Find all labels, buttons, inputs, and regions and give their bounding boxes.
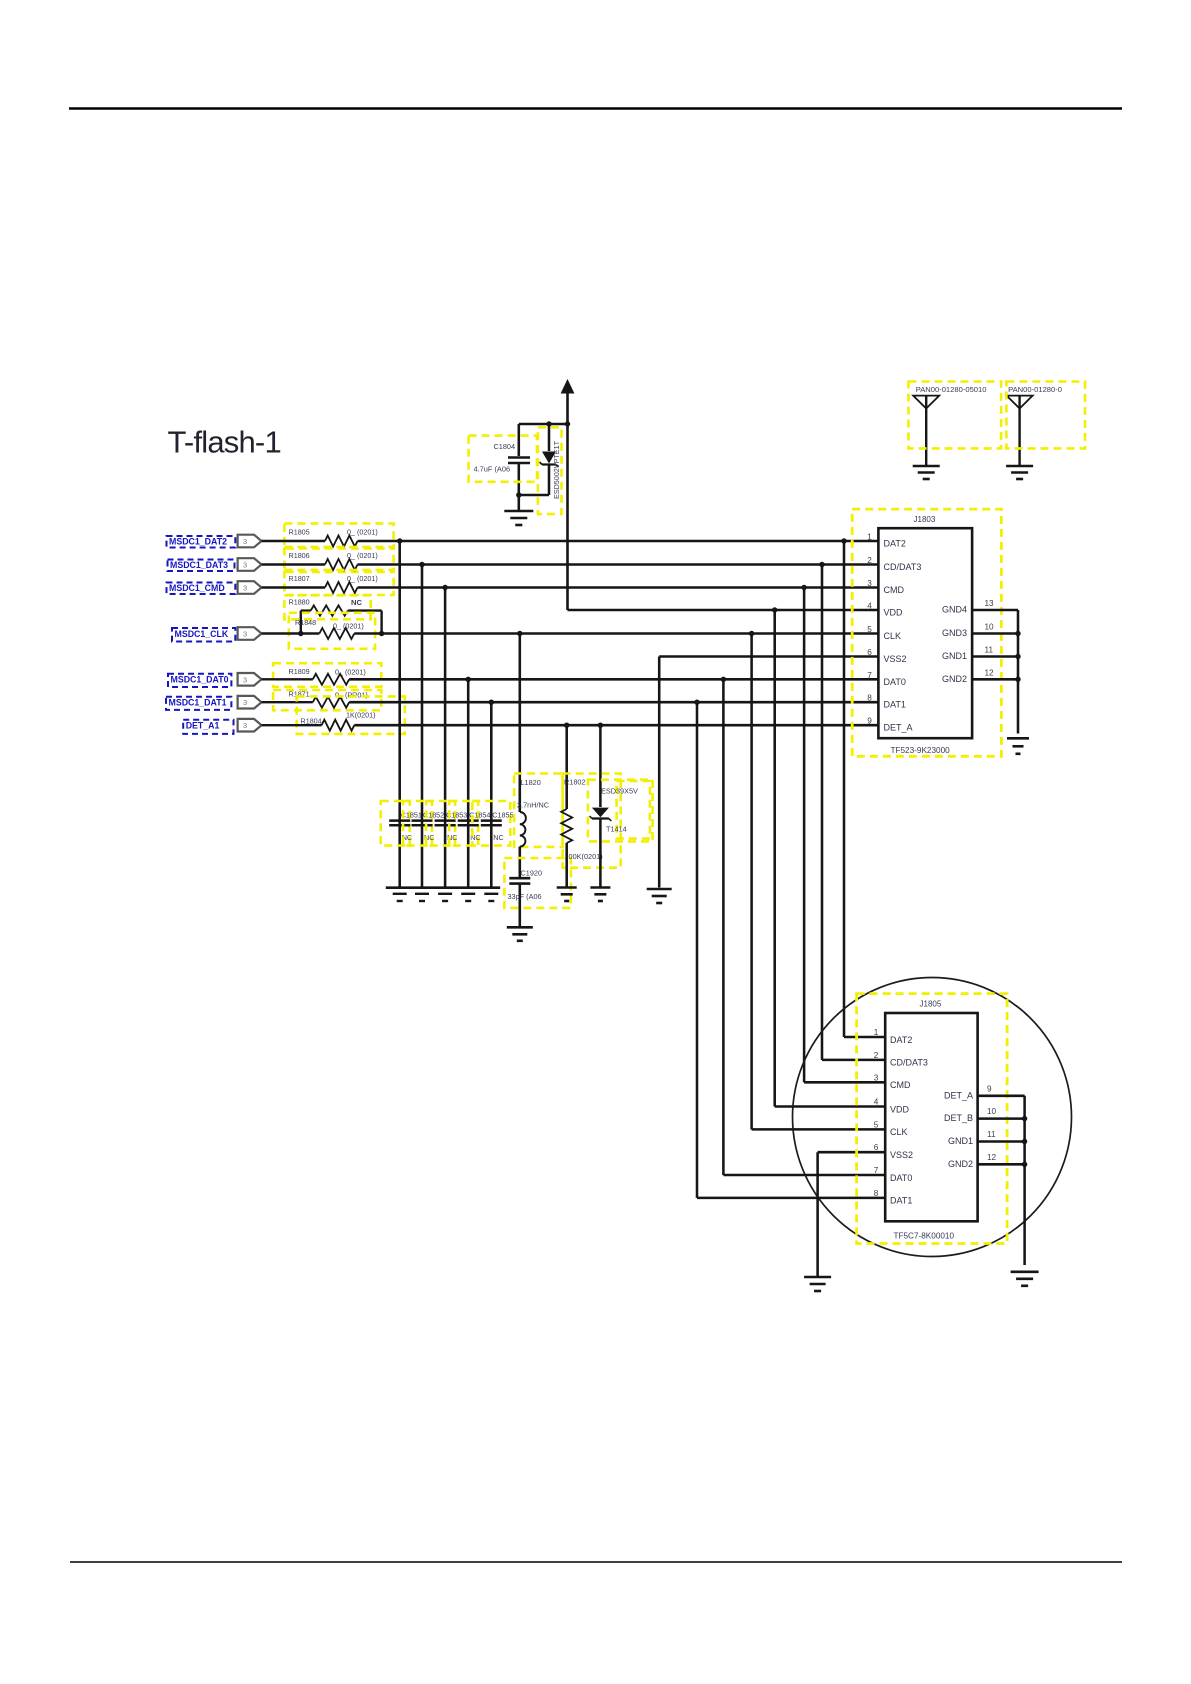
svg-text:6: 6 <box>867 648 872 657</box>
magnifier circle around J1805 <box>793 978 1072 1257</box>
wire MSDC1_CLK row <box>262 632 320 635</box>
wire DET_A vertical to R1802 <box>565 725 568 809</box>
svg-text:DAT1: DAT1 <box>884 700 906 710</box>
ground T1414 <box>590 886 610 889</box>
svg-text:7: 7 <box>874 1166 879 1175</box>
svg-text:T1414: T1414 <box>606 825 627 834</box>
wire VDD riser to J1805 pin4 <box>773 610 776 1107</box>
ground J1805 VSS2 <box>804 1276 831 1279</box>
wire MSDC1_DAT0 row <box>262 678 313 680</box>
wire J1805 right bus to ground <box>1023 1096 1026 1265</box>
svg-text:0_ (0201): 0_ (0201) <box>347 551 378 560</box>
svg-text:MSDC1_DAT0: MSDC1_DAT0 <box>171 675 229 685</box>
ESD diode D1800 <box>540 424 559 495</box>
svg-text:TF523-9K23000: TF523-9K23000 <box>891 746 951 755</box>
wire J1803 GND bus <box>1017 610 1020 734</box>
resistor R1880 NC (parallel bypass) <box>284 595 381 633</box>
wire C1920 to ground <box>519 885 522 927</box>
svg-text:11: 11 <box>985 646 994 655</box>
wire diode to ground <box>599 819 602 888</box>
svg-text:CLK: CLK <box>890 1127 908 1137</box>
ground <box>913 465 940 468</box>
svg-text:MSDC1_CLK: MSDC1_CLK <box>175 629 229 639</box>
svg-text:9: 9 <box>987 1084 992 1093</box>
ground J1803 <box>1007 737 1029 740</box>
svg-text:10: 10 <box>987 1107 997 1116</box>
yellow box PAN00-01280-0 <box>1006 382 1085 449</box>
port connector MSDC1_DAT3 <box>238 558 262 571</box>
ground C1920 <box>507 926 533 929</box>
fiducial antenna symbol PAN00-01280-0 <box>1007 385 1062 466</box>
svg-text:TF5C7-8K00010: TF5C7-8K00010 <box>894 1232 955 1241</box>
svg-text:R1848: R1848 <box>295 618 316 627</box>
svg-text:GND4: GND4 <box>942 605 967 615</box>
svg-text:L1820: L1820 <box>521 778 541 787</box>
svg-text:GND2: GND2 <box>942 674 967 684</box>
capacitor C1854 NC <box>449 801 490 846</box>
svg-text:NC: NC <box>493 833 503 842</box>
wire DET_A1 row <box>262 724 322 726</box>
svg-text:PAN00-01280-05010: PAN00-01280-05010 <box>916 385 987 394</box>
resistor R1802 100K(0201) <box>561 774 620 868</box>
svg-text:J1803: J1803 <box>914 515 936 524</box>
wire DAT0 vertical to C1854 <box>467 679 470 887</box>
svg-text:CLK: CLK <box>884 631 902 641</box>
svg-text:C1920: C1920 <box>521 869 543 878</box>
svg-text:3: 3 <box>243 721 247 730</box>
port connector MSDC1_CLK <box>238 627 262 640</box>
wire CD/DAT3 riser to J1805 pin2 <box>821 565 824 1060</box>
svg-text:ESD5002VPTE1T: ESD5002VPTE1T <box>552 440 561 499</box>
capacitor C1852 NC <box>403 801 444 846</box>
svg-text:4: 4 <box>867 602 872 611</box>
wire R1802 to ground <box>565 843 568 887</box>
svg-text:1: 1 <box>867 533 872 542</box>
svg-text:CD/DAT3: CD/DAT3 <box>884 562 922 572</box>
wire DAT3 vertical to C1852 <box>421 565 424 888</box>
svg-text:3: 3 <box>867 579 872 588</box>
svg-text:VDD: VDD <box>890 1104 910 1114</box>
svg-text:R1805: R1805 <box>289 527 310 536</box>
wire R1807 row <box>262 586 326 589</box>
wire DAT2 riser to J1805 pin1 <box>843 541 846 1037</box>
node MSDC1_DAT3 net label <box>168 560 235 572</box>
svg-text:5: 5 <box>867 625 872 634</box>
svg-text:3: 3 <box>243 561 247 570</box>
top horizontal rule <box>69 107 1122 110</box>
svg-text:2: 2 <box>874 1051 879 1060</box>
ground VSS2 <box>647 888 672 891</box>
resistor R1848 0_(0201) on CLK line <box>289 613 375 649</box>
wire CLK riser to J1805 pin5 <box>750 634 753 1130</box>
svg-text:0_ (0201): 0_ (0201) <box>333 622 364 631</box>
node MSDC1_CMD net label <box>167 583 236 595</box>
capacitor C1855 NC <box>472 801 513 846</box>
connector J1805 TF5C7-8K00010 <box>857 994 1025 1244</box>
node MSDC1_CLK net label <box>172 628 235 642</box>
resistor R1807 0_(0201) <box>284 570 393 595</box>
svg-text:1K(0201): 1K(0201) <box>346 711 376 720</box>
svg-text:R1802: R1802 <box>564 778 586 787</box>
wire VDD top node <box>519 423 568 426</box>
svg-text:4: 4 <box>874 1098 879 1107</box>
svg-text:GND2: GND2 <box>948 1159 973 1169</box>
yellow box C1804 <box>469 436 537 482</box>
resistor R1809 0_(0201) <box>273 663 381 687</box>
svg-text:1: 1 <box>874 1028 879 1037</box>
power symbol VDD arrow <box>561 379 575 394</box>
svg-text:R1809: R1809 <box>289 667 310 676</box>
port connector MSDC1_CMD <box>238 581 262 594</box>
svg-text:8: 8 <box>867 694 872 703</box>
wire cap-diode bottom node <box>519 494 549 497</box>
wire R1806 row <box>262 563 326 566</box>
wire MSDC1_DAT1 row <box>262 701 313 703</box>
node MSDC1_DAT1 net label <box>166 697 231 710</box>
port connector DET_A1 <box>238 719 262 732</box>
wire DAT1 riser to J1805 pin8 <box>696 702 699 1198</box>
svg-text:R1806: R1806 <box>289 551 310 560</box>
svg-text:GND3: GND3 <box>942 628 967 638</box>
inductor L1820 2.7nH/NC <box>514 774 563 847</box>
svg-text:GND1: GND1 <box>948 1136 973 1146</box>
wire CMD vertical to C1853 <box>444 588 447 888</box>
svg-text:3: 3 <box>243 630 247 639</box>
bottom horizontal rule <box>70 1561 1122 1563</box>
node DET_A1 net label <box>183 720 233 734</box>
svg-text:3: 3 <box>243 675 247 684</box>
resistor R1871 0_(PR01) <box>273 690 381 711</box>
svg-text:T-flash-1: T-flash-1 <box>168 425 281 460</box>
wire R1805 row <box>262 540 326 543</box>
svg-text:3: 3 <box>243 698 247 707</box>
svg-text:CD/DAT3: CD/DAT3 <box>890 1058 928 1068</box>
svg-text:MSDC1_CMD: MSDC1_CMD <box>169 583 225 593</box>
svg-text:6: 6 <box>874 1143 879 1152</box>
wire DAT1 vertical to C1855 <box>490 702 493 888</box>
resistor R1806 0_(0201) <box>284 547 393 572</box>
zener diode T1414 ESD39X5V <box>588 780 653 842</box>
ground R1802 <box>557 886 577 889</box>
svg-text:CMD: CMD <box>884 585 905 595</box>
svg-text:PAN00-01280-0: PAN00-01280-0 <box>1008 385 1062 394</box>
yellow box ESD diode <box>538 427 562 514</box>
svg-text:DET_A1: DET_A1 <box>186 721 220 731</box>
svg-text:VSS2: VSS2 <box>884 654 907 664</box>
svg-text:R1880: R1880 <box>289 598 310 607</box>
capacitor C1851 NC <box>381 801 422 846</box>
ground bus for C1851-C1855 <box>386 888 500 901</box>
wire DET_A vertical to TS diode <box>599 725 602 807</box>
svg-text:DAT1: DAT1 <box>890 1196 912 1206</box>
svg-text:12: 12 <box>985 668 995 677</box>
svg-text:DAT2: DAT2 <box>884 539 906 549</box>
svg-text:12: 12 <box>987 1153 997 1162</box>
svg-text:C1855: C1855 <box>492 811 513 820</box>
yellow box PAN00-01280-05010 <box>909 382 1002 449</box>
capacitor C1804 <box>508 424 530 495</box>
svg-text:VDD: VDD <box>884 608 904 618</box>
svg-text:7: 7 <box>867 671 872 680</box>
svg-text:ESD39X5V: ESD39X5V <box>601 787 638 796</box>
svg-text:2.7nH/NC: 2.7nH/NC <box>517 801 549 810</box>
svg-text:R1807: R1807 <box>289 574 310 583</box>
svg-text:DET_A: DET_A <box>884 723 913 733</box>
node MSDC1_DAT2 net label <box>167 536 236 548</box>
port connector MSDC1_DAT2 <box>238 535 262 548</box>
svg-text:33pF (A06: 33pF (A06 <box>508 892 542 901</box>
wire CMD riser to J1805 pin3 <box>803 588 806 1083</box>
svg-text:C1804: C1804 <box>494 442 516 451</box>
svg-text:8: 8 <box>874 1189 879 1198</box>
svg-text:DAT0: DAT0 <box>884 677 906 687</box>
svg-text:VSS2: VSS2 <box>890 1150 913 1160</box>
ground <box>1006 465 1033 468</box>
port connector MSDC1_DAT0 <box>238 673 262 686</box>
svg-text:DAT0: DAT0 <box>890 1173 912 1183</box>
wire DAT2 vertical to C1851 <box>398 541 401 888</box>
svg-text:13: 13 <box>985 599 995 608</box>
svg-text:100K(0201): 100K(0201) <box>565 852 603 861</box>
svg-text:0_ (0201): 0_ (0201) <box>347 574 378 583</box>
svg-text:0_ (0201): 0_ (0201) <box>347 527 378 536</box>
capacitor C1853 NC <box>426 801 467 846</box>
svg-text:J1805: J1805 <box>920 1000 942 1009</box>
svg-text:DAT2: DAT2 <box>890 1035 912 1045</box>
svg-text:5: 5 <box>874 1120 879 1129</box>
capacitor C1920 33pF <box>504 858 571 908</box>
wire CLK vertical to L1820 <box>519 634 522 813</box>
wire J1805 VSS2 pin6 to ground <box>818 1151 886 1154</box>
connector J1803 TF523-9K23000 <box>852 509 1018 756</box>
port connector MSDC1_DAT1 <box>238 696 262 709</box>
svg-text:DET_B: DET_B <box>944 1113 973 1123</box>
svg-text:3: 3 <box>243 584 247 593</box>
resistor R1805 0_(0201) <box>284 523 393 548</box>
svg-text:GND1: GND1 <box>942 651 967 661</box>
wire VSS2 to ground <box>658 657 661 888</box>
resistor R1804 1K(0201) <box>297 696 405 734</box>
ground J1805 right <box>1011 1271 1039 1274</box>
ground below C1804 <box>518 495 521 510</box>
svg-text:CMD: CMD <box>890 1080 911 1090</box>
svg-text:MSDC1_DAT2: MSDC1_DAT2 <box>169 536 227 546</box>
svg-text:3: 3 <box>243 537 247 546</box>
wire VSS2 row <box>659 655 878 657</box>
svg-text:10: 10 <box>985 623 995 632</box>
svg-text:11: 11 <box>987 1130 996 1139</box>
svg-text:2: 2 <box>867 556 872 565</box>
svg-text:3: 3 <box>874 1073 879 1082</box>
svg-text:9: 9 <box>867 717 872 726</box>
fiducial antenna symbol PAN00-01280-05010 <box>913 385 986 466</box>
svg-text:NC: NC <box>351 598 362 607</box>
wire L1820 to C1920 <box>519 847 522 877</box>
svg-text:MSDC1_DAT1: MSDC1_DAT1 <box>169 698 227 708</box>
wire DAT0 riser to J1805 pin7 <box>722 679 725 1175</box>
svg-text:DET_A: DET_A <box>944 1090 973 1100</box>
node MSDC1_DAT0 net label <box>168 674 231 687</box>
svg-text:4.7uF (A06: 4.7uF (A06 <box>474 465 511 474</box>
wire VDD row to J1803 pin4 <box>568 609 879 612</box>
svg-text:MSDC1_DAT3: MSDC1_DAT3 <box>170 560 228 570</box>
